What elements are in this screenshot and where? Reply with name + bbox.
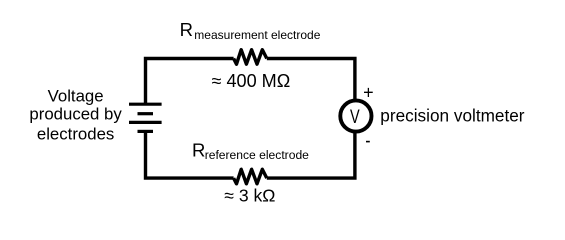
svg-text:≈ 3 kΩ: ≈ 3 kΩ (224, 186, 275, 206)
wire top-right segment (267, 59, 355, 101)
battery: short plate 2 (138, 130, 154, 133)
svg-text:R: R (192, 140, 205, 161)
wire top-left segment (146, 59, 234, 105)
svg-text:R: R (180, 19, 193, 40)
label - (366, 141, 370, 143)
svg-text:≈ 400 MΩ: ≈ 400 MΩ (212, 71, 291, 91)
battery: long plate 2 (129, 121, 162, 124)
resistor R measurement electrode (zigzag) (234, 50, 267, 64)
svg-text:reference electrode: reference electrode (205, 148, 309, 162)
svg-text:electrodes: electrodes (37, 125, 114, 144)
svg-text:precision voltmeter: precision voltmeter (380, 105, 525, 125)
svg-text:produced by: produced by (29, 105, 122, 124)
voltmeter U1 circle (340, 100, 371, 131)
svg-text:Voltage: Voltage (48, 87, 104, 106)
svg-text:V: V (350, 105, 360, 128)
battery: long plate 1 (129, 103, 162, 106)
wire bottom-left segment (146, 131, 234, 178)
svg-text:measurement electrode: measurement electrode (194, 28, 320, 42)
svg-text:+: + (363, 82, 374, 102)
resistor R reference electrode (zigzag) (234, 169, 267, 184)
wire right-bottom segment (267, 132, 355, 178)
battery: short plate 1 (138, 112, 154, 115)
